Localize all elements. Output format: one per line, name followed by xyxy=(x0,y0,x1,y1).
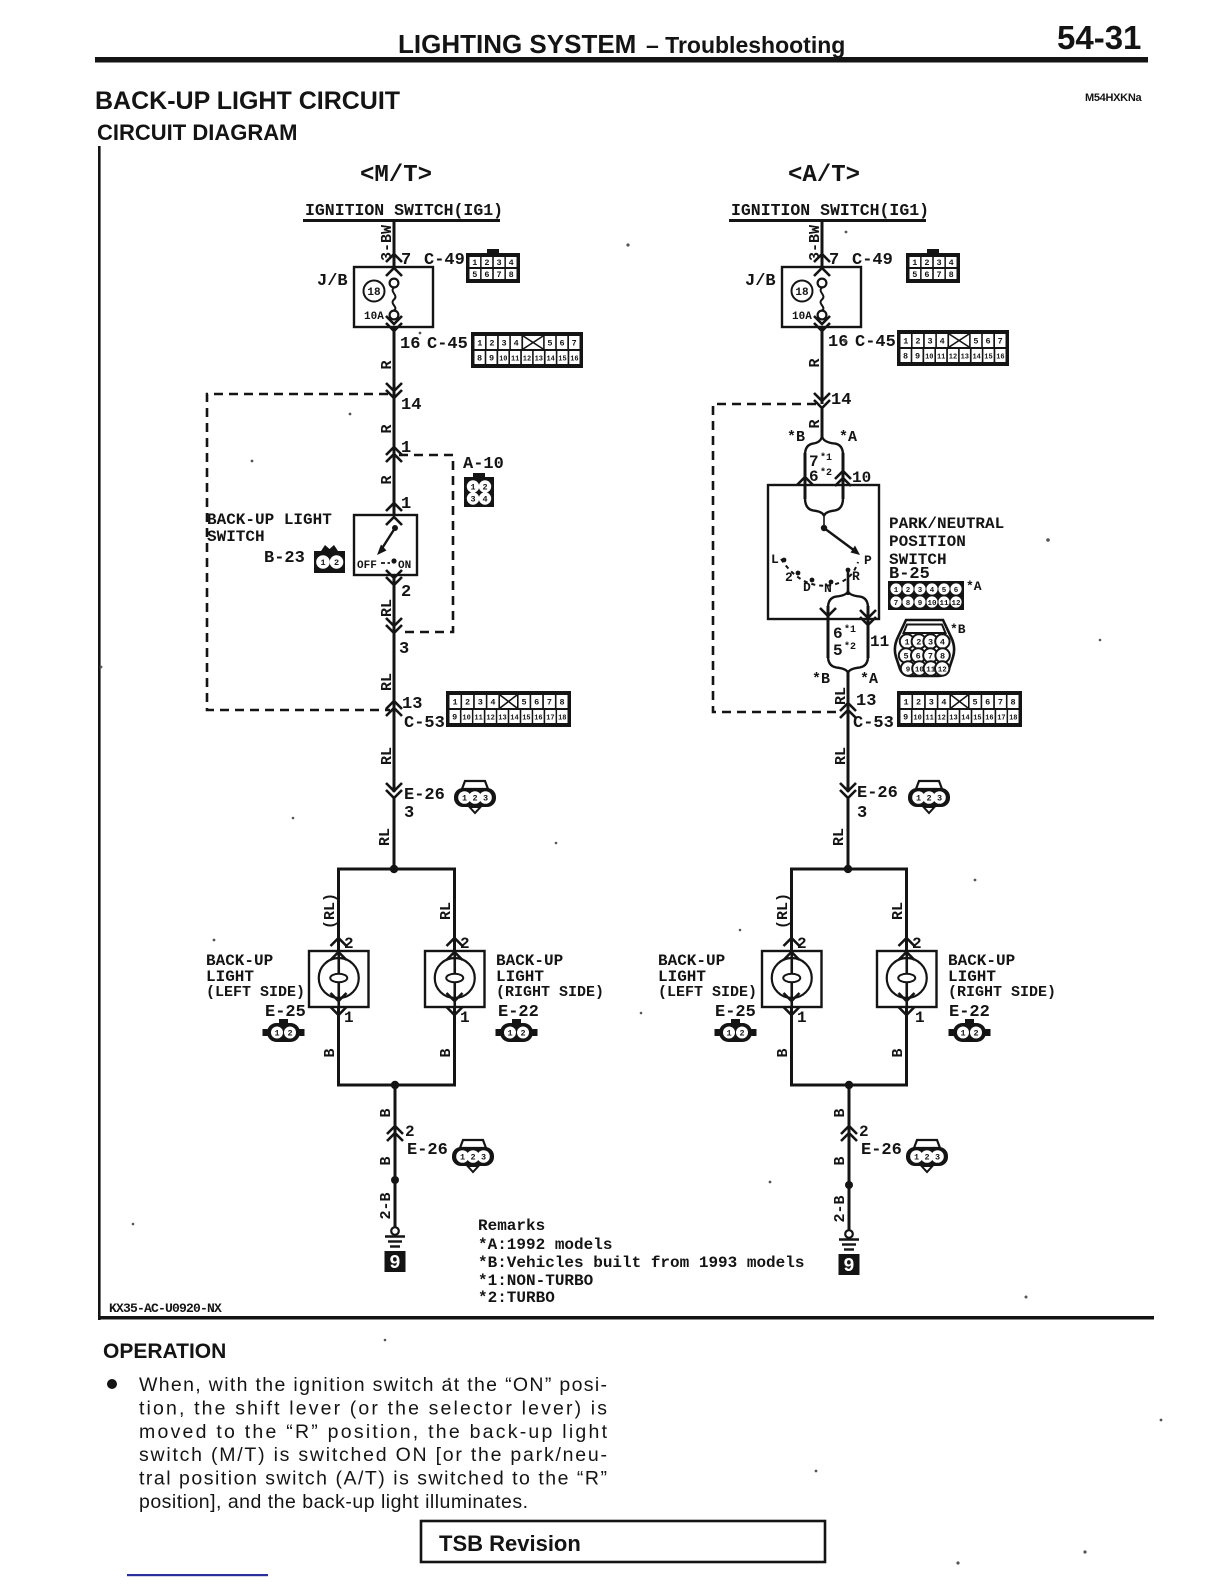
M/T branch top junction xyxy=(390,865,398,873)
M/T joint arrows at 3 xyxy=(386,618,402,626)
svg-text:C-45: C-45 xyxy=(855,333,896,352)
M/T right branch wire upper xyxy=(453,869,456,951)
M/T connector icon E-25 xyxy=(263,1019,305,1042)
svg-text:B: B xyxy=(378,1108,395,1117)
svg-text:<M/T>: <M/T> xyxy=(360,162,432,189)
M/T branch top bar xyxy=(337,868,456,871)
A/T wire from R contact xyxy=(847,572,850,595)
M/T left branch wire upper xyxy=(337,869,340,951)
A/T arrows into park/neutral switch xyxy=(797,477,813,485)
svg-text:14: 14 xyxy=(510,715,518,723)
A/T lower right branch wire xyxy=(867,606,870,658)
svg-text:1: 1 xyxy=(452,698,457,708)
B-25 connector icon 1992 models xyxy=(888,581,964,610)
svg-text:8: 8 xyxy=(949,270,954,280)
svg-text:(RL): (RL) xyxy=(775,893,792,929)
operation bullet xyxy=(107,1379,117,1389)
svg-text:12: 12 xyxy=(949,354,957,362)
svg-text:2: 2 xyxy=(926,794,931,804)
svg-text:E-26: E-26 xyxy=(861,1141,902,1160)
svg-text:*A:1992 models: *A:1992 models xyxy=(478,1236,612,1254)
svg-text:2-B: 2-B xyxy=(832,1195,849,1222)
diagram frame left border xyxy=(98,146,101,1320)
M/T wire ignition to J/B xyxy=(393,222,396,268)
svg-text:14: 14 xyxy=(831,391,851,410)
A/T branch top junction xyxy=(844,865,852,873)
svg-text:18: 18 xyxy=(1009,715,1017,723)
svg-text:7: 7 xyxy=(894,600,899,608)
M/T connector icon C-45 xyxy=(471,332,583,368)
M/T connector icon A-10 xyxy=(464,473,494,507)
svg-text:6: 6 xyxy=(954,587,959,595)
svg-text:10: 10 xyxy=(925,354,933,362)
svg-text:E-26: E-26 xyxy=(404,786,445,805)
svg-text:14: 14 xyxy=(546,356,554,364)
svg-text:R: R xyxy=(379,475,396,484)
A/T arrows at E-26 xyxy=(840,783,856,791)
svg-text:2: 2 xyxy=(906,587,911,595)
svg-text:(RIGHT SIDE): (RIGHT SIDE) xyxy=(496,984,604,1001)
svg-text:BACK-UP LIGHT: BACK-UP LIGHT xyxy=(207,511,332,529)
A/T merge brace bottom xyxy=(828,656,848,673)
svg-text:R: R xyxy=(807,358,824,367)
svg-text:L: L xyxy=(771,552,779,567)
svg-text:– Troubleshooting: – Troubleshooting xyxy=(646,32,845,58)
svg-text:8: 8 xyxy=(940,652,945,662)
A/T arrows at bottom E-26 xyxy=(841,1126,857,1134)
svg-text:1: 1 xyxy=(401,495,411,514)
svg-text:10A: 10A xyxy=(792,311,812,323)
svg-text:1: 1 xyxy=(470,483,475,493)
switch lever pivot stub xyxy=(823,514,825,526)
svg-text:(LEFT SIDE): (LEFT SIDE) xyxy=(658,984,757,1001)
svg-text:3: 3 xyxy=(478,698,483,708)
svg-text:4: 4 xyxy=(490,698,495,708)
A/T upper left branch wire xyxy=(804,453,807,499)
svg-text:B: B xyxy=(322,1048,339,1057)
svg-text:2: 2 xyxy=(405,1123,415,1141)
svg-text:(RL): (RL) xyxy=(322,893,339,929)
svg-text:8: 8 xyxy=(906,600,911,608)
svg-text:2-B: 2-B xyxy=(378,1192,395,1219)
svg-text:3: 3 xyxy=(497,258,502,268)
svg-text:3: 3 xyxy=(857,804,867,823)
svg-text:3: 3 xyxy=(470,495,475,505)
M/T arrows at bottom E-26 xyxy=(387,1126,403,1134)
svg-text:*B: *B xyxy=(787,429,805,446)
svg-text:1: 1 xyxy=(460,1009,470,1027)
scan noise speckles xyxy=(626,243,629,246)
switch lever pivot dot xyxy=(821,525,827,531)
svg-text:2: 2 xyxy=(401,583,411,602)
A/T wire J/B to C-45 xyxy=(821,327,824,404)
svg-text:1: 1 xyxy=(401,439,411,458)
svg-text:3: 3 xyxy=(937,258,942,268)
M/T right lamp pin 1 arrows xyxy=(447,993,463,1001)
A/T back-up light right lamp xyxy=(877,951,937,1007)
svg-text:4: 4 xyxy=(930,587,935,595)
svg-text:1: 1 xyxy=(726,1029,731,1039)
svg-text:*B: *B xyxy=(812,671,830,688)
svg-text:R: R xyxy=(379,360,396,369)
svg-text:B-23: B-23 xyxy=(264,549,305,568)
svg-text:6: 6 xyxy=(985,698,990,708)
svg-text:5: 5 xyxy=(973,337,978,347)
svg-text:RL: RL xyxy=(833,747,850,765)
A/T branch bottom junction xyxy=(845,1081,853,1089)
svg-text:6: 6 xyxy=(916,652,921,662)
svg-text:2: 2 xyxy=(859,1123,869,1141)
svg-text:6: 6 xyxy=(924,270,929,280)
svg-text:11: 11 xyxy=(870,633,889,651)
svg-text:14: 14 xyxy=(972,354,980,362)
svg-text:3: 3 xyxy=(937,794,942,804)
svg-text:8: 8 xyxy=(509,270,514,280)
A/T upper right branch wire xyxy=(842,453,845,499)
svg-text:position], and the back-up lig: position], and the back-up light illumin… xyxy=(139,1491,528,1513)
selector arc dashed xyxy=(781,559,858,586)
A/T connector icon E-25 xyxy=(715,1019,757,1042)
svg-text:15: 15 xyxy=(973,715,981,723)
svg-text:N: N xyxy=(824,581,832,596)
svg-text:2: 2 xyxy=(470,1153,475,1163)
svg-text:P: P xyxy=(864,553,872,568)
svg-text:*1: *1 xyxy=(820,452,832,464)
M/T connector icon E-22 xyxy=(496,1019,538,1042)
svg-text:2: 2 xyxy=(973,1029,978,1039)
svg-text:E-26: E-26 xyxy=(857,784,898,803)
svg-text:1: 1 xyxy=(903,698,908,708)
A/T right branch wire lower xyxy=(905,1007,908,1085)
svg-text:RL: RL xyxy=(379,747,396,765)
M/T dashed box around A-10 branch xyxy=(399,455,453,632)
A/T ground symbol 9 xyxy=(839,1230,860,1277)
svg-text:8: 8 xyxy=(903,352,908,362)
A/T right lamp pin 1 arrows xyxy=(899,993,915,1001)
svg-text:5: 5 xyxy=(903,652,908,662)
M/T arrow into switch xyxy=(386,503,402,511)
svg-text:10: 10 xyxy=(462,715,470,723)
svg-text:*B: *B xyxy=(950,622,966,637)
svg-text:RL: RL xyxy=(831,828,848,846)
A/T right branch wire upper xyxy=(905,869,908,951)
svg-text:13: 13 xyxy=(961,354,969,362)
svg-text:10: 10 xyxy=(499,356,507,364)
svg-text:<A/T>: <A/T> xyxy=(788,162,860,189)
A/T arrows out of park/neutral switch xyxy=(820,608,836,616)
svg-text:C-45: C-45 xyxy=(427,335,468,354)
svg-text:4: 4 xyxy=(940,337,945,347)
A/T merge brace inside switch xyxy=(805,498,824,516)
junction block J/B box xyxy=(354,267,433,327)
svg-text:15: 15 xyxy=(558,356,566,364)
svg-text:10: 10 xyxy=(927,600,937,608)
M/T left branch wire lower xyxy=(337,1007,340,1085)
M/T left lamp pin 1 arrows xyxy=(331,993,347,1001)
svg-text:6: 6 xyxy=(986,337,991,347)
svg-text:16: 16 xyxy=(996,354,1004,362)
A/T ignition switch underline xyxy=(729,219,926,222)
svg-text:4: 4 xyxy=(509,258,514,268)
M/T right branch wire lower xyxy=(453,1007,456,1085)
svg-text:1: 1 xyxy=(903,337,908,347)
svg-text:8: 8 xyxy=(1010,698,1015,708)
svg-text:16: 16 xyxy=(985,715,993,723)
svg-text:switch (M/T) is switched ON [o: switch (M/T) is switched ON [or the park… xyxy=(139,1444,607,1466)
svg-text:1: 1 xyxy=(344,1009,354,1027)
svg-text:1: 1 xyxy=(320,558,325,568)
park/neutral switch lever xyxy=(824,528,855,551)
svg-text:LIGHTING SYSTEM: LIGHTING SYSTEM xyxy=(398,29,636,59)
svg-text:9: 9 xyxy=(843,1255,854,1277)
svg-text:7: 7 xyxy=(937,270,942,280)
svg-text:2: 2 xyxy=(916,638,921,648)
A/T connector icon C-53 xyxy=(897,691,1022,727)
svg-text:3: 3 xyxy=(929,698,934,708)
svg-text:*A: *A xyxy=(966,579,982,594)
svg-text:18: 18 xyxy=(795,287,809,299)
svg-text:9: 9 xyxy=(918,600,923,608)
A/T connector icon E-22 xyxy=(949,1019,991,1042)
svg-text:RL: RL xyxy=(379,599,396,617)
M/T connector icon C-49 xyxy=(466,249,520,283)
svg-text:16: 16 xyxy=(534,715,542,723)
svg-text:CIRCUIT DIAGRAM: CIRCUIT DIAGRAM xyxy=(97,120,297,145)
svg-text:RL: RL xyxy=(438,902,455,920)
svg-text:12: 12 xyxy=(523,356,531,364)
A/T wire E-26 to lamp branch xyxy=(847,798,850,869)
A/T connector icon E-26 xyxy=(908,781,950,813)
svg-text:1: 1 xyxy=(274,1029,279,1039)
M/T connector arrows at C-49 pin 7 xyxy=(386,254,402,262)
svg-text:9: 9 xyxy=(915,352,920,362)
svg-text:11: 11 xyxy=(937,354,945,362)
A/T split brace upper xyxy=(805,436,822,455)
svg-text:4: 4 xyxy=(941,698,946,708)
svg-text:Remarks: Remarks xyxy=(478,1217,545,1235)
svg-text:J/B: J/B xyxy=(317,272,348,291)
svg-text:1: 1 xyxy=(916,794,921,804)
switch ON contact dot xyxy=(391,558,396,563)
M/T wire 1 to switch xyxy=(393,455,396,515)
svg-text:BACK-UP LIGHT CIRCUIT: BACK-UP LIGHT CIRCUIT xyxy=(95,87,400,115)
svg-text:tion, the shift lever (or the: tion, the shift lever (or the selector l… xyxy=(139,1397,607,1419)
selector position dots xyxy=(782,558,787,563)
svg-text:*A: *A xyxy=(860,671,878,688)
M/T ground symbol 9 xyxy=(385,1227,406,1274)
svg-text:(RIGHT SIDE): (RIGHT SIDE) xyxy=(948,984,1056,1001)
M/T wire E-26 to lamp branch xyxy=(393,798,396,869)
svg-text:RL: RL xyxy=(377,828,394,846)
A/T split brace lower xyxy=(828,591,848,608)
A/T right lamp pin 2 arrows xyxy=(899,938,915,946)
svg-text:2: 2 xyxy=(489,339,494,349)
svg-text:2: 2 xyxy=(785,570,793,585)
svg-text:2: 2 xyxy=(334,558,339,568)
A/T left branch wire upper xyxy=(790,869,793,951)
A/T connector arrows at C-53 xyxy=(840,703,856,711)
svg-text:B: B xyxy=(890,1048,907,1057)
M/T right lamp pin 2 arrows xyxy=(447,938,463,946)
svg-text:16: 16 xyxy=(400,335,420,354)
svg-text:9: 9 xyxy=(906,667,911,675)
svg-text:11: 11 xyxy=(939,600,949,608)
svg-text:9: 9 xyxy=(903,713,908,723)
M/T connector icon E-26 xyxy=(454,781,496,813)
M/T ground wire junction dot xyxy=(391,1176,399,1184)
svg-text:D: D xyxy=(803,580,811,595)
A/T bottom connector icon E-26 xyxy=(906,1140,948,1172)
svg-text:J/B: J/B xyxy=(745,272,776,291)
svg-text:B: B xyxy=(832,1108,849,1117)
svg-text:4: 4 xyxy=(940,638,945,648)
svg-text:5: 5 xyxy=(942,587,947,595)
svg-text:9: 9 xyxy=(489,354,494,364)
svg-text:11: 11 xyxy=(925,715,933,723)
svg-text:RL: RL xyxy=(890,902,907,920)
svg-text:1: 1 xyxy=(460,1153,465,1163)
svg-text:*1:NON-TURBO: *1:NON-TURBO xyxy=(478,1272,594,1290)
park/neutral position switch box xyxy=(768,485,879,619)
svg-text:*2: *2 xyxy=(820,467,832,479)
svg-text:17: 17 xyxy=(997,715,1005,723)
svg-text:13: 13 xyxy=(498,715,506,723)
svg-text:11: 11 xyxy=(474,715,482,723)
svg-text:11: 11 xyxy=(511,356,519,364)
svg-text:2: 2 xyxy=(520,1029,525,1039)
svg-text:1: 1 xyxy=(507,1029,512,1039)
A/T ground wire junction dot xyxy=(845,1181,853,1189)
svg-text:*B:Vehicles built from 1993 mo: *B:Vehicles built from 1993 models xyxy=(478,1254,804,1272)
svg-text:10A: 10A xyxy=(364,311,384,323)
svg-text:5: 5 xyxy=(522,698,527,708)
svg-text:4: 4 xyxy=(482,495,487,505)
M/T dashed box around back-up light switch xyxy=(207,394,390,710)
svg-text:E-26: E-26 xyxy=(407,1141,448,1160)
svg-text:5: 5 xyxy=(472,270,477,280)
M/T wire switch to 3 xyxy=(393,575,396,632)
svg-text:13: 13 xyxy=(856,692,876,711)
svg-text:8: 8 xyxy=(477,354,482,364)
A/T connector icon C-49 xyxy=(906,249,960,283)
M/T ignition switch underline xyxy=(303,219,500,222)
M/T connector icon C-53 xyxy=(446,691,571,727)
svg-text:6: 6 xyxy=(833,625,843,643)
svg-text:*2:TURBO: *2:TURBO xyxy=(478,1289,555,1307)
svg-text:1: 1 xyxy=(912,258,917,268)
svg-text:KX35-AC-U0920-NX: KX35-AC-U0920-NX xyxy=(109,1301,222,1316)
switch OFF-ON dash xyxy=(381,562,390,564)
M/T arrows at E-26 xyxy=(386,783,402,791)
A/T branch bottom bar xyxy=(790,1084,908,1087)
svg-text:OFF: OFF xyxy=(357,560,377,572)
svg-text:17: 17 xyxy=(546,715,554,723)
svg-text:3: 3 xyxy=(399,640,409,659)
M/T bottom connector icon E-26 xyxy=(452,1140,494,1172)
svg-text:RL: RL xyxy=(379,673,396,691)
svg-text:2: 2 xyxy=(287,1029,292,1039)
svg-text:2: 2 xyxy=(924,258,929,268)
svg-text:5: 5 xyxy=(912,270,917,280)
svg-text:13: 13 xyxy=(535,356,543,364)
svg-text:B: B xyxy=(438,1048,455,1057)
svg-text:B: B xyxy=(378,1156,395,1165)
svg-text:12: 12 xyxy=(951,600,961,608)
M/T branch bottom junction xyxy=(391,1081,399,1089)
diagram frame bottom border xyxy=(98,1316,1154,1320)
svg-text:IGNITION SWITCH(IG1): IGNITION SWITCH(IG1) xyxy=(731,201,929,220)
svg-text:6: 6 xyxy=(534,698,539,708)
svg-text:2: 2 xyxy=(916,698,921,708)
A/T junction arrows at 14 xyxy=(814,393,830,401)
A/T dashed box around park/neutral switch xyxy=(713,404,842,712)
A/T left lamp pin 2 arrows xyxy=(784,938,800,946)
svg-text:2: 2 xyxy=(739,1029,744,1039)
M/T connector arrows at 1 xyxy=(386,447,402,455)
svg-text:3: 3 xyxy=(935,1153,940,1163)
svg-text:3: 3 xyxy=(481,1153,486,1163)
svg-text:C-53: C-53 xyxy=(853,714,894,733)
svg-text:R: R xyxy=(379,424,396,433)
svg-text:7: 7 xyxy=(998,698,1003,708)
M/T connector arrows at C-53 xyxy=(386,701,402,709)
footer blue rule xyxy=(127,1574,268,1576)
A/T ground wire xyxy=(848,1085,851,1231)
svg-text:TSB Revision: TSB Revision xyxy=(439,1531,581,1556)
svg-text:(LEFT SIDE): (LEFT SIDE) xyxy=(206,984,305,1001)
svg-text:R: R xyxy=(852,569,860,584)
A/T wire to C-53 xyxy=(847,671,850,792)
svg-text:2: 2 xyxy=(484,258,489,268)
fuse element xyxy=(390,279,399,288)
svg-text:5: 5 xyxy=(833,642,843,660)
svg-text:9: 9 xyxy=(389,1252,400,1274)
svg-text:2: 2 xyxy=(924,1153,929,1163)
svg-text:tral position switch (A/T) is: tral position switch (A/T) is switched t… xyxy=(139,1468,607,1490)
svg-text:12: 12 xyxy=(486,715,494,723)
svg-text:7: 7 xyxy=(928,652,933,662)
svg-text:IGNITION SWITCH(IG1): IGNITION SWITCH(IG1) xyxy=(305,201,503,220)
A/T wire 14 to split xyxy=(821,408,824,438)
svg-text:18: 18 xyxy=(367,287,381,299)
svg-text:4: 4 xyxy=(514,339,519,349)
svg-text:3: 3 xyxy=(928,337,933,347)
svg-text:14: 14 xyxy=(961,715,969,723)
svg-text:5: 5 xyxy=(973,698,978,708)
back-up light switch box xyxy=(354,515,417,575)
svg-text:2: 2 xyxy=(482,483,487,493)
svg-text:SWITCH: SWITCH xyxy=(207,528,265,546)
back-up light switch lever xyxy=(392,525,398,531)
svg-text:3: 3 xyxy=(918,587,923,595)
svg-text:1: 1 xyxy=(915,1009,925,1027)
svg-text:PARK/NEUTRAL: PARK/NEUTRAL xyxy=(889,515,1004,533)
svg-text:moved to the “R” position, the: moved to the “R” position, the back-up l… xyxy=(139,1421,608,1443)
svg-text:A-10: A-10 xyxy=(463,455,504,474)
M/T back-up light left lamp xyxy=(309,951,369,1007)
M/T branch bottom bar xyxy=(337,1084,456,1087)
svg-text:1: 1 xyxy=(797,1009,807,1027)
svg-text:3: 3 xyxy=(502,339,507,349)
svg-text:1: 1 xyxy=(472,258,477,268)
svg-text:16: 16 xyxy=(570,356,578,364)
A/T left branch wire lower xyxy=(790,1007,793,1085)
svg-text:4: 4 xyxy=(949,258,954,268)
svg-text:13: 13 xyxy=(949,715,957,723)
svg-text:18: 18 xyxy=(558,715,566,723)
svg-text:7: 7 xyxy=(998,337,1003,347)
svg-text:9: 9 xyxy=(452,713,457,723)
